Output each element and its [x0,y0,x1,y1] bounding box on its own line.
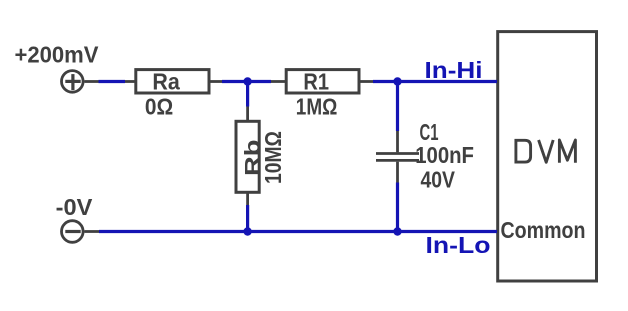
svg-text:100nF: 100nF [415,142,474,168]
wire Rb bottom vertical [246,205,249,232]
wire Rb top vertical [246,82,249,107]
resistor R1 [271,70,373,93]
svg-text:In-Lo: In-Lo [426,232,491,258]
value 1MΩ [296,93,338,119]
value 0Ω [145,93,173,119]
net label In-Hi [425,57,483,83]
svg-text:Common: Common [501,217,586,243]
junction node: C1 tap on In-Hi [393,77,401,85]
svg-text:Ra: Ra [152,68,180,94]
svg-text:In-Hi: In-Hi [425,57,483,83]
resistor Rb [236,107,259,206]
svg-text:+200mV: +200mV [15,42,100,68]
label -0V [56,194,93,220]
value 10MΩ [260,131,286,184]
junction node: C1 tap on In-Lo [393,227,401,235]
label C1 [420,119,439,145]
value 40V [421,167,456,193]
wire C1 top vertical [396,82,399,132]
resistor Ra [125,70,222,93]
svg-text:R1: R1 [303,68,329,94]
voltage source terminal +200mV [62,71,99,93]
value 100nF [415,142,474,168]
net label In-Lo [426,232,491,258]
label DVM [516,140,576,163]
label R1 [303,68,329,94]
pin label Common [501,217,586,243]
voltage source terminal -0V [62,221,99,243]
wire C1 bottom vertical [396,183,399,232]
DVM box U1 [498,32,597,281]
junction node: Rb tap on In-Lo [243,227,251,235]
wire net In-Hi: source to Ra [99,80,126,83]
wire net In-Hi: R1 to DVM [373,80,497,83]
svg-text:-0V: -0V [56,194,93,220]
label Ra [152,68,180,94]
wire net In-Hi: Ra to R1 [222,80,271,83]
label Rb [242,140,265,177]
svg-text:1MΩ: 1MΩ [296,93,338,119]
capacitor C1 [376,131,419,183]
svg-text:40V: 40V [421,167,456,193]
junction node: Rb tap on In-Hi [243,77,251,85]
wire net In-Lo: bottom rail [99,230,497,233]
label +200mV [15,42,100,68]
svg-text:10MΩ: 10MΩ [260,131,286,184]
svg-text:0Ω: 0Ω [145,93,173,119]
